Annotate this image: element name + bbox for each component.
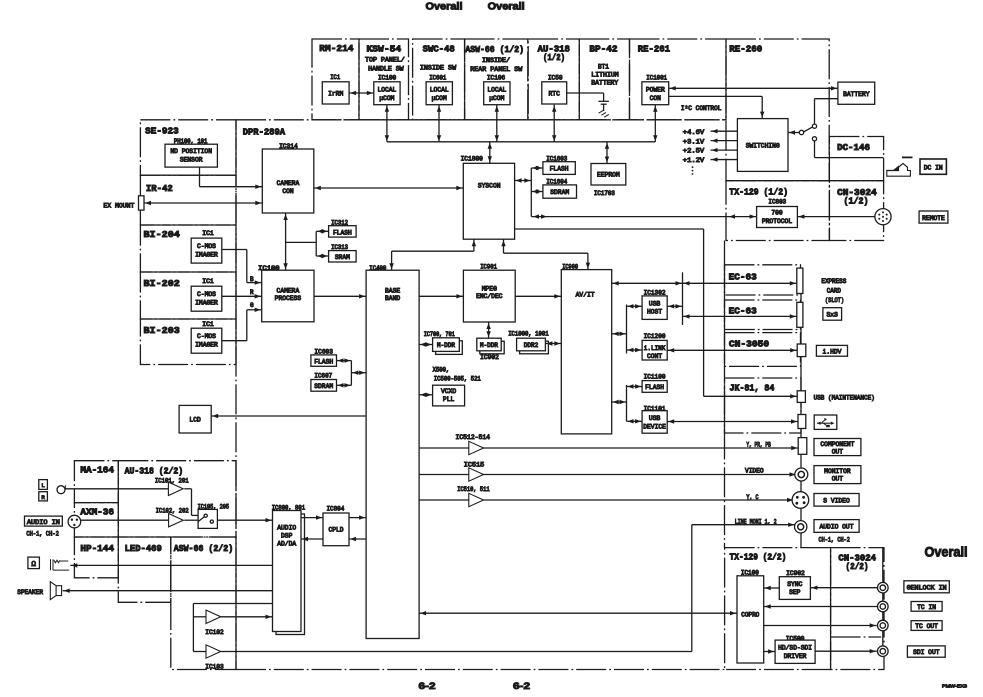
svg-text:AV/IT: AV/IT [576,291,595,298]
svg-text:IMAGER: IMAGER [195,299,218,306]
svg-text:PLL: PLL [443,396,455,403]
svg-text:CAMERA: CAMERA [277,288,300,295]
svg-text:IC102, 202: IC102, 202 [156,507,189,514]
svg-text:OUT: OUT [832,476,844,483]
svg-text:6-2: 6-2 [513,681,530,692]
svg-text:SWITCHING: SWITCHING [746,142,780,149]
svg-text:FLASH: FLASH [645,384,664,391]
svg-text:IC1: IC1 [330,74,340,81]
svg-text:ND POSITION: ND POSITION [170,148,212,155]
svg-text:C-MOS: C-MOS [197,333,216,340]
svg-text:IC804: IC804 [327,506,345,513]
svg-text:USB: USB [649,415,661,422]
svg-text:μCOM: μCOM [379,95,394,102]
svg-text:RE-261: RE-261 [638,44,671,55]
svg-text:HP-144: HP-144 [80,543,114,554]
svg-text:IC1100: IC1100 [644,373,666,380]
svg-text:AD/DA: AD/DA [277,540,296,547]
svg-text:EX MOUNT: EX MOUNT [103,203,134,210]
svg-text:IC601: IC601 [429,74,446,81]
svg-text:R: R [41,494,45,501]
svg-text:+1.2V: +1.2V [683,157,705,164]
svg-text:IC313: IC313 [331,244,348,251]
svg-text:IC103: IC103 [205,663,224,670]
svg-text:MA-164: MA-164 [80,465,114,476]
svg-text:SYSCON: SYSCON [478,182,501,189]
svg-text:SWC-48: SWC-48 [423,44,456,55]
svg-text:IC1703: IC1703 [594,190,615,197]
svg-text:CAMERA: CAMERA [277,180,300,187]
svg-text:SDI OUT: SDI OUT [913,649,940,656]
svg-text:M-DDR: M-DDR [480,342,498,349]
svg-text:DC IN: DC IN [924,165,943,172]
svg-text:BATTERY: BATTERY [591,80,618,87]
svg-text:REMOTE: REMOTE [922,215,945,222]
svg-text:USB (MAINTENANCE): USB (MAINTENANCE) [814,394,875,401]
svg-text:IC1: IC1 [202,278,214,285]
svg-text:(2/2): (2/2) [846,561,869,572]
svg-text:IC515: IC515 [464,462,485,469]
svg-text:BAND: BAND [385,295,400,302]
svg-text:IC901: IC901 [480,264,497,271]
svg-text:BP-42: BP-42 [589,44,617,55]
svg-text:+4.6V: +4.6V [683,129,705,136]
svg-text:(SLOT): (SLOT) [825,297,844,304]
svg-text:DEVICE: DEVICE [643,423,666,430]
svg-text:IC102: IC102 [205,629,224,636]
svg-text:BASE: BASE [385,288,400,295]
svg-text:DC-146: DC-146 [837,142,870,153]
svg-text:Overall: Overall [488,0,525,12]
svg-text:RM-214: RM-214 [319,43,354,54]
svg-text:IR-42: IR-42 [146,183,173,194]
svg-text:Overall: Overall [426,0,463,12]
svg-text:IC50: IC50 [548,74,563,81]
svg-text:IC902: IC902 [480,354,499,361]
svg-text:USB: USB [649,300,661,307]
svg-text:AU-318 (2/2): AU-318 (2/2) [125,466,184,477]
svg-text:R: R [250,289,254,296]
svg-text:CH-1, CH-2: CH-1, CH-2 [819,536,851,543]
svg-text:CON: CON [650,95,662,102]
svg-text:CARD: CARD [827,288,842,295]
svg-text:IC1001: IC1001 [646,74,667,81]
svg-text:IC607: IC607 [314,373,332,380]
svg-text:IC100: IC100 [378,74,397,81]
svg-text:IMAGER: IMAGER [195,341,218,348]
svg-text:RTC: RTC [549,90,561,97]
svg-text:BATTERY: BATTERY [843,91,870,98]
svg-text:SYNC: SYNC [787,581,802,588]
svg-text:SDRAM: SDRAM [314,383,333,390]
svg-text:IC1800: IC1800 [461,156,484,163]
svg-text:AUDIO IN: AUDIO IN [27,519,60,526]
svg-text:700: 700 [771,210,783,217]
svg-text:BI-204: BI-204 [144,229,181,240]
svg-text:B: B [250,276,254,283]
svg-text:SPEAKER: SPEAKER [17,589,43,596]
svg-text:SENSOR: SENSOR [180,156,203,163]
svg-text:LINE MONI 1, 2: LINE MONI 1, 2 [735,519,777,526]
svg-text:OUT: OUT [832,448,844,455]
svg-text:EC-63: EC-63 [729,306,758,317]
svg-text:i.LINK: i.LINK [644,345,666,352]
svg-text:X500,: X500, [433,367,450,374]
svg-text:G: G [250,302,254,309]
svg-text:TC OUT: TC OUT [915,623,938,630]
svg-text:VCXO: VCXO [441,388,456,395]
svg-text:HANDLE SW: HANDLE SW [368,65,404,72]
svg-text:C-MOS: C-MOS [197,243,216,250]
svg-text:CH-1, CH-2: CH-1, CH-2 [26,530,59,537]
svg-text:FLASH: FLASH [314,359,333,366]
svg-text:S VIDEO: S VIDEO [823,497,850,504]
svg-text:BI-203: BI-203 [144,325,181,336]
svg-text:TOP PANEL/: TOP PANEL/ [365,57,405,64]
svg-text:GENLOCK IN: GENLOCK IN [907,584,947,591]
svg-text:AXM-36: AXM-36 [80,507,114,518]
svg-text:LOCAL: LOCAL [430,87,449,94]
svg-text:FLASH: FLASH [550,166,569,173]
svg-text:IC512-514: IC512-514 [456,434,491,441]
svg-text:TX-129 (1/2): TX-129 (1/2) [729,187,788,198]
svg-text:CONT: CONT [647,353,662,360]
svg-text:COPRO: COPRO [741,611,759,618]
svg-text:+2.5V: +2.5V [683,148,705,155]
svg-text:DDR2: DDR2 [524,342,539,349]
svg-text:FLASH: FLASH [333,229,352,236]
svg-text:PROTOCOL: PROTOCOL [762,218,792,225]
svg-text:DPR-289A: DPR-289A [243,126,286,137]
svg-text:μCOM: μCOM [432,95,447,102]
svg-text:INSIDE SW: INSIDE SW [420,65,457,72]
svg-text:VIDEO: VIDEO [745,467,764,474]
svg-text:KSW-54: KSW-54 [367,44,402,55]
svg-text:IMAGER: IMAGER [195,251,218,258]
svg-text:RE-260: RE-260 [729,44,762,55]
svg-text:EXPRESS: EXPRESS [821,278,846,285]
svg-text:LITHIUM: LITHIUM [591,71,619,78]
svg-text:IC106: IC106 [487,74,506,81]
svg-text:AUDIO OUT: AUDIO OUT [819,523,853,530]
svg-text:+3.1V: +3.1V [683,138,705,145]
svg-text:HOST: HOST [647,309,662,316]
svg-text:INSIDE/: INSIDE/ [482,57,510,64]
svg-text:HD/SD-SDI: HD/SD-SDI [778,645,812,652]
svg-text:SEP: SEP [789,589,801,596]
svg-text:ASW-66 (2/2): ASW-66 (2/2) [174,543,234,554]
svg-text:JK-81, 84: JK-81, 84 [730,383,775,394]
svg-text:CPLD: CPLD [328,527,343,534]
svg-text:I²C CONTROL: I²C CONTROL [681,105,722,112]
svg-text:PROCESS: PROCESS [275,295,302,302]
svg-text:IC1000, 1001: IC1000, 1001 [508,331,549,338]
svg-text:Overall: Overall [925,545,968,560]
svg-text:(1/2): (1/2) [844,195,869,206]
svg-text:ASW-66 (1/2): ASW-66 (1/2) [465,44,524,55]
svg-text:SDRAM: SDRAM [550,189,569,196]
svg-text:L: L [41,482,45,489]
svg-text:μCOM: μCOM [489,95,504,102]
svg-text:C-MOS: C-MOS [197,291,216,298]
svg-text:IC510, 511: IC510, 511 [457,486,490,493]
svg-text:TC IN: TC IN [917,604,936,611]
svg-text:PMW-EX3: PMW-EX3 [942,684,967,690]
svg-text:6-2: 6-2 [419,681,436,692]
svg-text:M-DDR: M-DDR [437,342,455,349]
svg-text:IC700, 701: IC700, 701 [424,331,455,338]
svg-text:i.HDV: i.HDV [823,348,842,355]
svg-text:IC1: IC1 [202,321,214,328]
svg-text:DRIVER: DRIVER [784,653,807,660]
svg-text:MONITOR: MONITOR [824,468,851,475]
svg-text:LOCAL: LOCAL [377,87,396,94]
svg-text:Ω: Ω [31,561,36,569]
svg-text:BT1: BT1 [598,63,609,70]
svg-text:IC1: IC1 [202,230,214,237]
svg-text:MPEG: MPEG [482,286,497,293]
svg-text:CN-3050: CN-3050 [729,338,769,349]
svg-text:EEPROM: EEPROM [597,172,620,179]
svg-text:SRAM: SRAM [335,254,350,261]
svg-text:IC803: IC803 [768,198,786,205]
svg-text:POWER: POWER [646,87,665,94]
svg-text:IC500-505, 521: IC500-505, 521 [434,375,481,382]
svg-text:(1/2): (1/2) [543,52,565,63]
svg-text:DSP: DSP [281,532,293,539]
svg-text:BI-202: BI-202 [144,278,180,289]
svg-text:SE-923: SE-923 [145,125,179,136]
svg-text:EC-63: EC-63 [729,272,758,283]
svg-text:IrRM: IrRM [328,90,343,97]
svg-text:REAR PANEL SW: REAR PANEL SW [470,66,522,73]
svg-text:LED-469: LED-469 [125,543,162,554]
svg-text:AUDIO: AUDIO [277,524,296,531]
svg-text:LCD: LCD [189,416,201,423]
svg-text:Y, PR, PB: Y, PR, PB [746,441,771,448]
svg-text:SxS: SxS [827,312,839,319]
svg-text:LOCAL: LOCAL [487,87,506,94]
svg-text:IC1200: IC1200 [644,333,666,340]
svg-text:Y, C: Y, C [746,494,759,501]
svg-text:ENC/DEC: ENC/DEC [476,293,503,300]
svg-text:COMPONENT: COMPONENT [820,441,854,448]
svg-text:TX-129 (2/2): TX-129 (2/2) [730,551,787,562]
svg-text:CON: CON [282,188,294,195]
